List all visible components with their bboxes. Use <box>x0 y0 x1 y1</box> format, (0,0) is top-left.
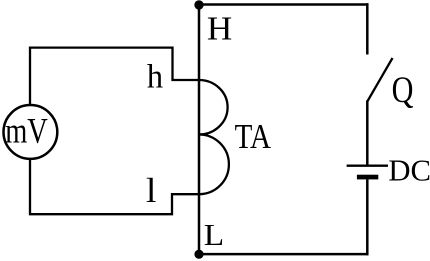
svg-text:l: l <box>146 171 157 210</box>
wire top bus H to switch branch <box>199 3 369 6</box>
wire meter loop top (h side) <box>30 48 200 104</box>
switch Q blade <box>367 58 392 102</box>
wire right branch lower (battery to bottom bus) <box>366 179 369 255</box>
svg-text:DC: DC <box>388 154 430 188</box>
meter mV (circle) <box>4 105 58 159</box>
svg-text:L: L <box>204 218 224 252</box>
svg-text:Q: Q <box>392 70 414 111</box>
svg-text:H: H <box>207 11 232 48</box>
wire primary vertical H-L <box>198 5 201 255</box>
node H (filled junction dot) <box>194 0 203 9</box>
svg-text:mV: mV <box>5 110 48 150</box>
node L (filled junction dot) <box>194 250 203 259</box>
wire right branch middle (switch to battery) <box>366 101 369 165</box>
wire bottom bus L to battery branch <box>199 253 369 256</box>
coil TA lower arc <box>199 135 229 195</box>
wire meter loop bottom (l side) <box>30 160 200 214</box>
wire right branch upper (to switch) <box>366 3 369 54</box>
coil TA upper arc <box>199 80 228 135</box>
svg-text:h: h <box>147 59 163 96</box>
svg-text:TA: TA <box>235 117 272 156</box>
battery DC long plate (+) <box>347 164 388 166</box>
battery DC short thick plate (-) <box>357 175 378 180</box>
